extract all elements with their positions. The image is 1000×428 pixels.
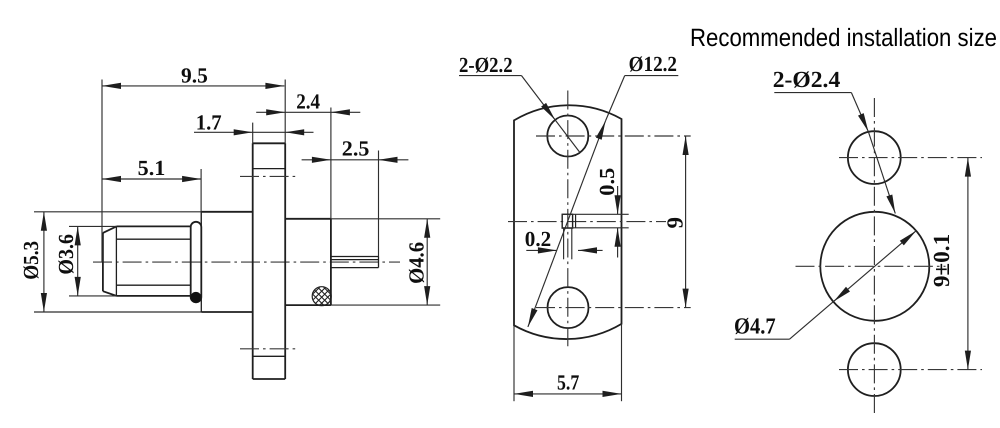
svg-text:2-Ø2.2: 2-Ø2.2 bbox=[459, 53, 513, 77]
label dia12.2 leader segment bbox=[606, 76, 625, 121]
connector plug body top edge bbox=[116, 225, 190, 227]
dimension 1.7 line bbox=[194, 131, 314, 133]
svg-text:0.2: 0.2 bbox=[525, 227, 551, 251]
dimension dia3.6 extension bottom bbox=[69, 295, 116, 297]
top circle centerline with extension bbox=[839, 157, 982, 159]
dimension 2.4 line bbox=[256, 111, 360, 113]
flange front left extension for 5.7 bbox=[513, 325, 515, 401]
dimension 0.2 line right bbox=[578, 249, 603, 251]
center contact lower-right extension bbox=[571, 228, 573, 259]
flange top edge bbox=[253, 142, 286, 144]
mounting hole bottom bbox=[548, 287, 589, 328]
flange front outline bbox=[514, 105, 622, 339]
install hole top circle bbox=[848, 131, 901, 184]
cylinder dia5.3 top edge with extension line bbox=[34, 211, 201, 213]
contact pin inner edge bbox=[331, 259, 379, 261]
label dia4.7 leader diagonal bbox=[790, 231, 917, 340]
flange bottom hole edge line bbox=[253, 355, 286, 357]
connector plug chamfer vertical bbox=[115, 226, 117, 296]
flange top hole centerline bbox=[240, 175, 298, 177]
label dia12.2 underline bbox=[625, 75, 679, 77]
flange top hole edge line bbox=[253, 168, 286, 170]
label 2-dia2.2 underline bbox=[459, 75, 522, 77]
flange horizontal centerline bbox=[508, 221, 666, 223]
svg-text:Recommended installation size: Recommended installation size bbox=[690, 24, 997, 52]
svg-text:2-Ø2.4: 2-Ø2.4 bbox=[773, 67, 841, 92]
o-ring gasket filled dot bbox=[190, 292, 201, 303]
svg-text:9±0.1: 9±0.1 bbox=[929, 234, 954, 287]
install hole center circle dia4.7 bbox=[820, 212, 929, 321]
svg-text:0.5: 0.5 bbox=[595, 168, 619, 196]
svg-text:5.1: 5.1 bbox=[138, 156, 166, 180]
label 2-dia2.2 leader bbox=[522, 76, 580, 153]
label 2-dia2.4 underline bbox=[774, 92, 851, 94]
bottom hole centerline with 9 extension bbox=[536, 307, 691, 309]
label dia4.7 underline bbox=[735, 338, 790, 340]
dimension 5.1 line bbox=[102, 178, 201, 180]
dimension 9.5 line bbox=[102, 85, 284, 87]
svg-text:Ø3.6: Ø3.6 bbox=[54, 234, 78, 275]
svg-text:Ø4.7: Ø4.7 bbox=[734, 314, 776, 339]
label 2-dia2.4 leader bbox=[851, 93, 868, 132]
dimension 5.1 extension line right bbox=[200, 169, 202, 222]
contact pin top edge bbox=[331, 256, 379, 258]
svg-text:Ø12.2: Ø12.2 bbox=[629, 52, 677, 76]
connector plug thread relief top line bbox=[116, 238, 190, 240]
rear cylinder dia4.6 bottom edge with extension bbox=[285, 304, 331, 306]
top hole centerline with 9 extension bbox=[536, 135, 691, 137]
dimension 9+-0.1 line bbox=[967, 158, 969, 370]
mounting hole top bbox=[547, 116, 588, 157]
rear cylinder end face bbox=[330, 108, 332, 219]
svg-text:9: 9 bbox=[662, 217, 687, 229]
connector plug body bottom edge bbox=[116, 295, 190, 297]
dimension 0.5 line bbox=[617, 186, 619, 214]
dimension dia5.3 line bbox=[43, 212, 45, 312]
svg-text:5.7: 5.7 bbox=[557, 371, 580, 395]
dimension dia3.6 line bbox=[77, 226, 79, 296]
dimension 0.5 extension top bbox=[562, 213, 629, 215]
label dia12.2 diagonal line bbox=[528, 121, 606, 327]
hatched seal ring section bbox=[308, 271, 336, 317]
dimension dia4.6 line bbox=[426, 219, 428, 305]
bottom circle centerline with extension bbox=[839, 369, 982, 371]
dimension 2.5 line bbox=[302, 159, 409, 161]
cylinder dia5.3 bottom edge with extension line bbox=[34, 311, 201, 313]
flange left face bbox=[252, 123, 254, 144]
svg-text:2.5: 2.5 bbox=[342, 136, 370, 160]
contact pin right face with extension bbox=[378, 151, 380, 257]
svg-text:1.7: 1.7 bbox=[196, 111, 222, 135]
flange front right extension for 5.7 bbox=[621, 324, 623, 401]
center circle horizontal centerline bbox=[796, 265, 946, 267]
svg-text:9.5: 9.5 bbox=[181, 63, 208, 87]
contact pin bottom edge bbox=[331, 267, 379, 269]
svg-text:2.4: 2.4 bbox=[296, 89, 320, 113]
svg-text:Ø5.3: Ø5.3 bbox=[19, 241, 43, 280]
svg-text:Ø4.6: Ø4.6 bbox=[405, 242, 429, 284]
connector plug chamfer top-left bbox=[103, 226, 117, 233]
dimension dia3.6 extension top bbox=[69, 225, 116, 227]
center contact lower-left extension bbox=[563, 228, 565, 259]
connector sleeve rounded cap bbox=[191, 222, 202, 302]
flange vertical centerline bbox=[567, 91, 569, 349]
dimension 9 line bbox=[685, 136, 687, 308]
dimension 0.2 line left bbox=[526, 249, 557, 251]
connector plug left face bbox=[102, 233, 104, 291]
flange bottom hole centerline bbox=[240, 348, 298, 350]
center contact square bbox=[562, 214, 572, 228]
dimension 0.5 extension bottom bbox=[562, 227, 629, 229]
rear cylinder dia4.6 top edge with extension bbox=[285, 218, 331, 220]
dimension 5.7 line bbox=[514, 393, 622, 395]
install hole bottom circle bbox=[848, 343, 901, 396]
connector plug thread relief bottom line bbox=[116, 284, 190, 286]
flange bottom edge bbox=[253, 378, 286, 380]
connector plug chamfer bottom-left bbox=[103, 291, 117, 296]
dimension 9.5 extension line left bbox=[101, 80, 103, 263]
flange right face bbox=[284, 80, 286, 144]
install view vertical centerline bbox=[873, 98, 875, 413]
label 2-dia2.4 second leader bbox=[868, 132, 895, 214]
cylinder dia5.3 left shoulder bbox=[200, 212, 202, 312]
wire left view main centerline bbox=[93, 261, 400, 263]
center contact inner edge bbox=[575, 215, 577, 228]
